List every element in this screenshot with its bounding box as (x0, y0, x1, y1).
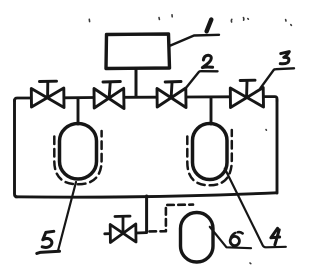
valve V6 handle (115, 215, 130, 218)
valve V3 stem (170, 83, 174, 97)
box U1 (unit 1) (106, 34, 170, 69)
speck marks (scan noise) (89, 15, 291, 264)
valve V1 bowtie (31, 88, 64, 108)
valve V1 stem (46, 82, 49, 97)
label 1 leader (171, 35, 220, 46)
wire: drain drop pipe (145, 196, 148, 232)
label 5 underline (37, 251, 60, 253)
wire: main pipe V4 to right corner (264, 97, 278, 101)
label 4 (271, 228, 280, 245)
label 1 (207, 20, 212, 32)
wire: main pipe V3 to V4 (186, 95, 230, 98)
valve V4 bowtie (230, 88, 263, 108)
hose to tank T6 (dashed) (150, 205, 194, 232)
wire: loop right side pipe (276, 100, 279, 193)
valve V4 stem (245, 82, 248, 97)
label 5 (42, 231, 54, 247)
label 4 leader (225, 169, 286, 248)
valve V2 handle (103, 80, 120, 83)
label 2 leader (187, 71, 218, 87)
valve V4 handle (240, 79, 255, 82)
tank T5 (60, 124, 97, 180)
wire: tank T5 drop pipe (77, 99, 80, 125)
tank T4 (193, 124, 228, 180)
wire: main pipe segment left corner to valve V1 (15, 98, 32, 101)
tank T6 (181, 213, 214, 263)
label 5 leader (58, 182, 76, 250)
label 3 leader (260, 68, 294, 88)
valve V1 handle (40, 80, 57, 83)
wire: main pipe V1 to V2 (64, 96, 94, 99)
tank T5 jacket (dashed) (54, 131, 101, 184)
wire: box drop pipe (135, 69, 138, 97)
label 6 leader (210, 227, 251, 248)
wire: drain pipe stub left (105, 232, 110, 235)
valve V2 stem (109, 83, 110, 97)
valve V3 handle (165, 80, 181, 83)
wire: drain pipe stub right (136, 231, 147, 234)
wire: tank T4 drop pipe (210, 99, 213, 125)
tank T4 jacket (dashed) (187, 130, 232, 185)
label 6 (231, 232, 243, 237)
valve V2 bowtie (94, 88, 124, 108)
wire: main pipe V2 to V3 (124, 96, 157, 99)
label 3 (280, 52, 289, 64)
valve V6 bowtie (110, 224, 136, 243)
valve V6 stem (122, 217, 125, 232)
valve V3 bowtie (157, 88, 186, 108)
wire: loop left side pipe (15, 100, 18, 197)
label 2 (202, 55, 212, 67)
wire: loop bottom pipe (16, 193, 276, 197)
